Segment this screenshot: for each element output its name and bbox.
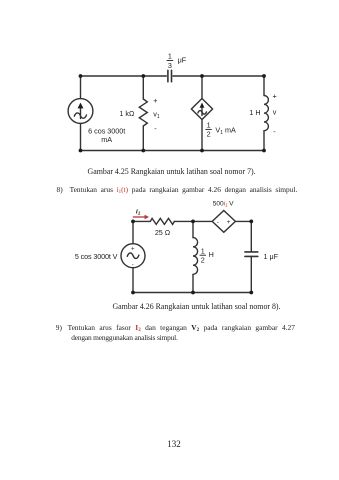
- svg-text:1: 1: [201, 246, 205, 255]
- wire left branch 2 upper: [132, 221, 134, 243]
- wire middle branch lower: [192, 274, 194, 292]
- svg-text:25 Ω: 25 Ω: [155, 228, 171, 237]
- wire branch3 upper: [201, 76, 203, 99]
- svg-text:1 H: 1 H: [249, 108, 260, 117]
- svg-text:5 cos 3000t V: 5 cos 3000t V: [75, 252, 118, 261]
- wire branch2 lower: [142, 126, 144, 151]
- svg-text:+: +: [273, 92, 277, 101]
- item 9 text: [56, 323, 295, 344]
- dependent voltage source 500 i1 V: [212, 211, 235, 233]
- svg-text:1: 1: [168, 52, 172, 61]
- inductor 1/2 H: [193, 238, 198, 275]
- value label 1 kOhm: [119, 109, 135, 118]
- wire branch2 upper: [142, 76, 144, 99]
- wire top segment right: [235, 220, 251, 222]
- wire middle branch upper: [192, 221, 194, 237]
- wire left branch 2 lower: [132, 268, 134, 293]
- svg-text:v: v: [273, 108, 277, 117]
- polarity label v: [273, 92, 277, 137]
- svg-text:1: 1: [207, 121, 211, 130]
- wire bottom rail 2: [133, 292, 251, 294]
- svg-text:2: 2: [201, 255, 205, 264]
- value label 5 cos 3000t V: [75, 252, 118, 261]
- svg-text:-: -: [154, 124, 157, 133]
- value label 1/2 H: [200, 246, 214, 264]
- wire right branch 2 upper: [250, 221, 252, 251]
- resistor 1 kOhm: [139, 99, 147, 126]
- svg-text:H: H: [209, 250, 214, 259]
- svg-text:V1 mA: V1 mA: [215, 125, 236, 136]
- value label 6 cos 3000t mA: [88, 127, 125, 145]
- svg-text:-: -: [273, 127, 276, 136]
- value label 500 i1 V: [213, 201, 234, 208]
- polarity marks inside diamond: [217, 219, 231, 226]
- value label 1 uF: [264, 252, 279, 261]
- svg-text:i1: i1: [136, 209, 141, 216]
- value label 25 Ohm: [155, 228, 171, 237]
- value label 1 H: [249, 108, 260, 117]
- wire top-left segment: [81, 75, 167, 77]
- wire top-right segment: [173, 75, 264, 77]
- svg-text:+: +: [131, 246, 135, 252]
- wire top segment middle: [174, 220, 212, 222]
- svg-text:3: 3: [168, 61, 172, 70]
- current arrow i1 (red): [133, 209, 149, 220]
- svg-text:500i1V: 500i1V: [213, 201, 234, 208]
- wire bottom rail: [81, 150, 265, 152]
- current source I1 6 cos 3000t mA: [68, 99, 93, 124]
- wire top segment left: [133, 220, 150, 222]
- wire right branch 2 lower: [250, 256, 252, 292]
- svg-text:+: +: [153, 96, 157, 105]
- wire left branch upper: [80, 76, 82, 99]
- svg-text:+: +: [227, 219, 231, 226]
- page number: [4, 439, 339, 449]
- svg-text:-: -: [132, 263, 134, 269]
- dependent current source 1/2 V1 mA: [191, 99, 212, 120]
- value label 1/2 V1 mA: [205, 121, 236, 139]
- svg-text:v1: v1: [153, 110, 160, 121]
- inductor 1 H: [264, 96, 268, 131]
- node junction dots circuit 2: [131, 220, 253, 295]
- voltage source 5 cos 3000t V: [121, 244, 145, 268]
- svg-text:2: 2: [207, 130, 211, 139]
- polarity marks inside voltage source: [131, 246, 135, 268]
- svg-text:-: -: [217, 220, 219, 226]
- svg-text:1 μF: 1 μF: [264, 252, 279, 261]
- wire right branch lower: [263, 131, 265, 151]
- wire right branch upper: [263, 76, 265, 96]
- item 8 text: [57, 185, 298, 194]
- svg-text:mA: mA: [101, 135, 112, 144]
- svg-text:1 kΩ: 1 kΩ: [119, 109, 135, 118]
- node junction dots circuit 1: [79, 74, 266, 152]
- capacitor 1 uF: [245, 252, 258, 257]
- resistor 25 Ohm: [150, 218, 174, 224]
- wire branch3 lower: [201, 120, 203, 151]
- capacitor C 1/3 uF: [168, 70, 172, 81]
- value label 1/3 uF: [167, 52, 187, 70]
- polarity label v1: [153, 96, 160, 133]
- svg-text:μF: μF: [178, 56, 187, 65]
- wire left branch lower: [80, 123, 82, 150]
- caption Gambar 4.26: [26, 302, 339, 311]
- caption Gambar 4.25: [1, 167, 339, 176]
